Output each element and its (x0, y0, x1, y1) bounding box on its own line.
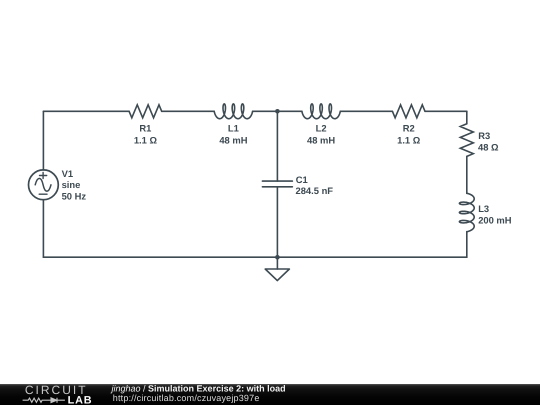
wire R1 to L1 (162, 110, 215, 112)
wire capacitor branch top (276, 111, 278, 181)
resistor R1 (129, 105, 162, 118)
svg-text:R1: R1 (139, 123, 151, 134)
wire R3 to L3 (466, 156, 468, 193)
V1 sine symbol (35, 178, 51, 191)
wire left column bottom (42, 200, 44, 258)
svg-text:1.1 Ω: 1.1 Ω (134, 134, 158, 145)
svg-text:R2: R2 (403, 123, 415, 134)
svg-text:L1: L1 (228, 123, 239, 134)
svg-text:48 Ω: 48 Ω (478, 141, 499, 152)
svg-text:L3: L3 (478, 203, 489, 214)
node junction bottom (275, 255, 280, 260)
V1 minus sign (39, 193, 47, 195)
ground stem (276, 257, 278, 269)
wire capacitor branch bottom (276, 187, 278, 257)
wire L2 to R2 (340, 110, 392, 112)
wire right column top (466, 111, 468, 124)
ground triangle (265, 269, 289, 281)
svg-text:LAB: LAB (68, 394, 93, 405)
wire left column top (42, 111, 44, 170)
svg-text:284.5 nF: 284.5 nF (296, 185, 334, 196)
wire R2 to right corner (425, 110, 467, 112)
capacitor C1 (262, 181, 292, 187)
node junction top (275, 109, 280, 114)
wire node to L2 (277, 110, 302, 112)
svg-text:48 mH: 48 mH (307, 134, 335, 145)
inductor L3 (459, 193, 474, 231)
logo resistor zigzag (23, 398, 51, 402)
svg-text:200 mH: 200 mH (478, 215, 512, 226)
svg-text:50 Hz: 50 Hz (62, 191, 87, 202)
voltage source V1 circle (29, 170, 59, 200)
resistor R3 (460, 124, 473, 157)
svg-text:L2: L2 (316, 123, 327, 134)
resistor R2 (392, 105, 425, 118)
svg-text:http://circuitlab.com/czuvayej: http://circuitlab.com/czuvayejp397e (113, 393, 260, 403)
inductor L1 (214, 104, 252, 119)
svg-text:R3: R3 (478, 130, 490, 141)
V1 plus sign (40, 173, 47, 179)
footer bar (0, 384, 540, 405)
svg-text:C1: C1 (296, 174, 308, 185)
wire L1 to node (253, 110, 278, 112)
inductor L2 (302, 104, 340, 119)
svg-text:V1: V1 (62, 168, 73, 179)
svg-text:48 mH: 48 mH (219, 134, 247, 145)
wire top-left horizontal (43, 110, 129, 112)
wire right column bottom (466, 232, 468, 258)
wire bottom horizontal (43, 256, 466, 258)
svg-text:1.1 Ω: 1.1 Ω (397, 134, 421, 145)
logo diode (51, 398, 57, 403)
svg-text:sine: sine (62, 179, 81, 190)
